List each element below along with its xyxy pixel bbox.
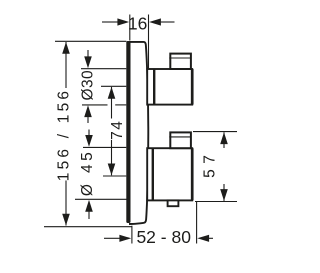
handle 2 bottom tab xyxy=(168,200,179,206)
svg-text:57: 57 xyxy=(202,150,219,178)
handle 1 step inner line xyxy=(169,57,191,59)
handle 2 step xyxy=(170,132,191,148)
svg-text:52 - 80: 52 - 80 xyxy=(136,227,191,247)
dim O45: ext lines xyxy=(83,146,126,148)
handle 1 sleeve line xyxy=(153,69,155,105)
escutcheon plate profile xyxy=(129,42,148,224)
wall plate back bar xyxy=(126,41,130,223)
dim O30: bottom arrow xyxy=(87,116,89,124)
handle 2 body front edge xyxy=(191,148,194,200)
handle 2 body xyxy=(147,148,192,200)
dim 52-80: ext lines xyxy=(131,226,133,244)
dim O45: top arrow xyxy=(88,130,90,138)
svg-text:Ø30: Ø30 xyxy=(80,70,97,101)
handle 2 sleeve line xyxy=(152,148,154,200)
dim 74: dimension line xyxy=(111,87,113,119)
dim 52-80: left leader + arrow xyxy=(104,237,120,239)
dim O30: top arrow xyxy=(87,50,89,58)
dim 156/156: dimension line xyxy=(65,42,67,88)
dim 57: dimension line xyxy=(223,132,225,148)
svg-text:74: 74 xyxy=(109,120,126,140)
dim 16: left leader + arrow xyxy=(102,21,118,23)
handle 1 body front edge xyxy=(191,69,194,105)
dim O45: bottom arrow xyxy=(88,211,90,220)
handle 2 step inner line xyxy=(169,136,191,138)
dim 74: ext lines xyxy=(101,85,126,87)
dim 52-80: right leader + arrow xyxy=(209,237,214,239)
svg-text:156 / 156: 156 / 156 xyxy=(56,88,73,181)
dim 57: ext lines xyxy=(193,131,237,133)
dim 74: arrows xyxy=(108,87,116,99)
dim O30: ext lines xyxy=(81,68,126,70)
handle 1 step xyxy=(170,54,191,69)
dim 156/156: extension lines xyxy=(55,40,126,42)
svg-text:Ø 45: Ø 45 xyxy=(79,149,96,196)
dim 16: right leader + arrow xyxy=(161,21,175,23)
dim 16: extension lines xyxy=(129,15,131,41)
handle 1 body xyxy=(147,69,192,105)
dim 57: arrows xyxy=(220,132,228,144)
svg-text:16: 16 xyxy=(128,14,147,34)
dim 156/156: arrows xyxy=(62,42,70,54)
